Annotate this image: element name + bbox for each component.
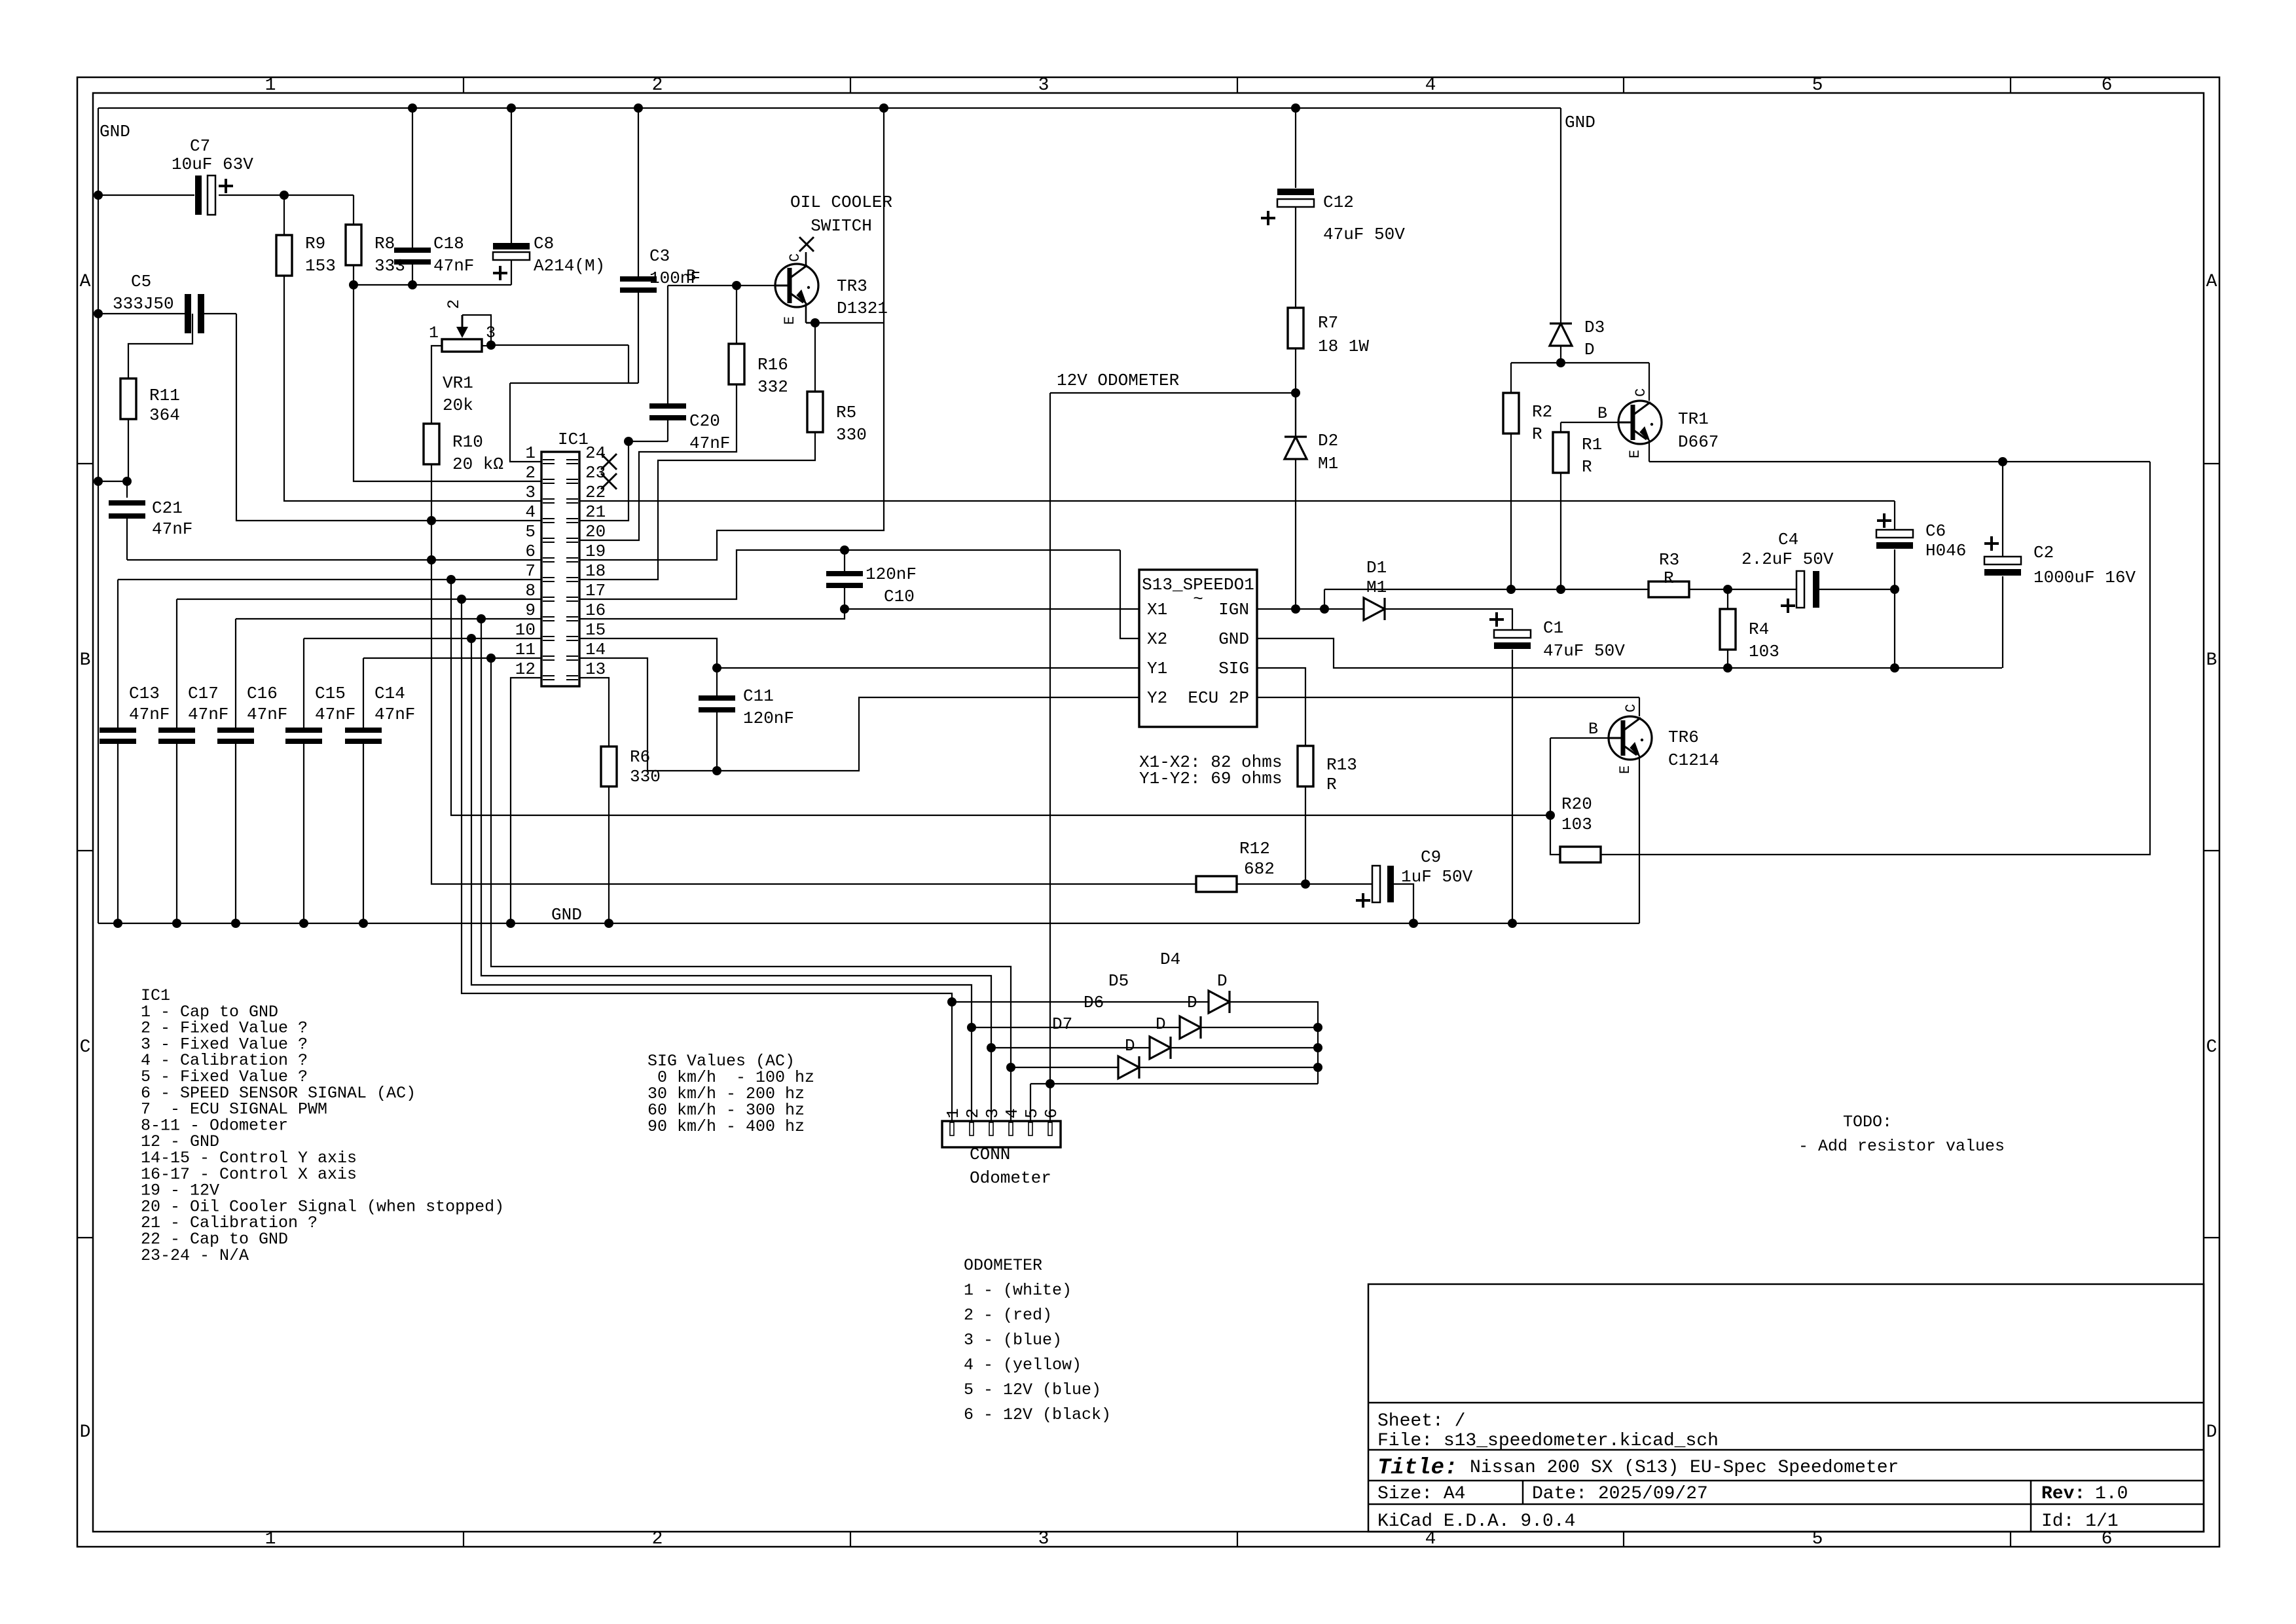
svg-text:R: R — [1582, 457, 1592, 477]
diode D7 — [1052, 1014, 1139, 1079]
svg-text:3: 3 — [486, 323, 496, 342]
resistor R13 — [1298, 746, 1357, 794]
junction C1 gnd — [1508, 919, 1517, 928]
diode D1 — [1364, 558, 1387, 620]
wire TR1 base — [1561, 422, 1618, 423]
junction C7-left — [94, 191, 103, 200]
transistor TR6 — [1588, 704, 1719, 774]
junction 12V rail — [879, 103, 888, 113]
wires CONN pins — [952, 1002, 1050, 1121]
svg-text:3: 3 — [1038, 75, 1049, 96]
wire TR1 E down — [1649, 440, 1650, 462]
svg-text:5: 5 — [1022, 1108, 1042, 1118]
svg-text:47nF: 47nF — [247, 705, 287, 724]
svg-text:OIL COOLER: OIL COOLER — [790, 193, 892, 212]
svg-text:~: ~ — [1193, 589, 1203, 609]
junction conn6 12V — [1046, 1079, 1055, 1088]
label CONN — [970, 1145, 1051, 1188]
svg-text:5 - 12V (blue): 5 - 12V (blue) — [964, 1380, 1101, 1399]
no-connect pin23 — [601, 473, 617, 489]
capacitor C21 — [109, 481, 541, 560]
svg-text:IC1: IC1 — [558, 430, 589, 449]
wire D5 row — [972, 1027, 1180, 1028]
capacitor C11 — [699, 668, 794, 771]
wire D4 row — [952, 1001, 1209, 1003]
svg-text:19: 19 — [585, 542, 606, 561]
svg-text:330: 330 — [836, 425, 867, 445]
svg-text:1000uF 16V: 1000uF 16V — [2033, 568, 2136, 587]
svg-text:KiCad E.D.A. 9.0.4: KiCad E.D.A. 9.0.4 — [1377, 1511, 1575, 1532]
svg-text:90 km/h - 400 hz: 90 km/h - 400 hz — [647, 1117, 805, 1136]
svg-text:R3: R3 — [1659, 550, 1679, 570]
junction pin7 bus — [446, 575, 456, 584]
svg-text:GND: GND — [100, 122, 130, 141]
svg-text:C5: C5 — [131, 272, 151, 291]
wire 900 rail left — [1324, 589, 1649, 590]
svg-text:C16: C16 — [247, 684, 278, 703]
wire S13 GND to rail — [1257, 638, 2002, 668]
wire right loop — [1601, 462, 2150, 855]
svg-text:6 - 12V (black): 6 - 12V (black) — [964, 1405, 1111, 1424]
svg-text:Odometer: Odometer — [970, 1168, 1051, 1188]
svg-text:C20: C20 — [689, 411, 720, 431]
wire ECU row right — [1257, 697, 1639, 698]
svg-text:TODO:: TODO: — [1843, 1113, 1892, 1132]
wire bus pin7 to TR6 base row — [451, 580, 1550, 815]
svg-text:C14: C14 — [374, 684, 405, 703]
wire C21 row — [98, 481, 127, 482]
junction R2 bottom — [1506, 585, 1516, 594]
svg-text:R16: R16 — [757, 355, 788, 375]
svg-text:13: 13 — [585, 659, 606, 679]
wire R1 bottom — [1560, 473, 1561, 589]
resistor R5 — [807, 323, 867, 445]
svg-text:330: 330 — [630, 767, 661, 786]
junction D3 anode — [1556, 358, 1565, 367]
capacitor C12 — [1261, 108, 1405, 308]
wire SIG to R13 — [1257, 668, 1305, 746]
svg-text:R5: R5 — [836, 403, 856, 422]
junction C14 gnd — [359, 919, 368, 928]
diode D3 — [1550, 318, 1605, 363]
wire pin16 to X1 — [579, 609, 845, 619]
svg-text:R: R — [1532, 424, 1542, 444]
wire TR6 E down — [1639, 756, 1640, 923]
connector CONN — [942, 1108, 1061, 1147]
wire diode bottom row — [1030, 1083, 1318, 1084]
bottom GND rail wire — [98, 923, 1639, 924]
svg-text:D667: D667 — [1678, 432, 1719, 452]
svg-text:A: A — [2206, 272, 2217, 292]
svg-text:1.0: 1.0 — [2095, 1484, 2128, 1504]
svg-text:103: 103 — [1749, 642, 1779, 661]
junction R6 gnd — [604, 919, 613, 928]
svg-text:1: 1 — [429, 323, 439, 342]
svg-text:IGN: IGN — [1218, 600, 1249, 619]
wire R5 to pin18 — [579, 432, 815, 580]
wire D3 column — [1560, 108, 1561, 323]
capacitor C6 — [1876, 501, 1966, 668]
junction pin12 gnd — [506, 919, 515, 928]
resistor R3 — [1649, 550, 1689, 597]
junction R1 bottom — [1556, 585, 1565, 594]
resistor R16 — [729, 286, 788, 397]
wire x659 pin4-pin6 — [431, 521, 432, 560]
svg-text:D: D — [1584, 340, 1595, 360]
junction C18 top — [408, 103, 417, 113]
svg-text:D5: D5 — [1108, 971, 1129, 991]
junction R11 bottom — [122, 477, 132, 486]
svg-text:C9: C9 — [1421, 847, 1441, 867]
svg-text:M1: M1 — [1366, 578, 1387, 597]
svg-text:17: 17 — [585, 581, 606, 600]
wire TR6 C — [1639, 697, 1640, 716]
capacitor C9 — [1356, 847, 1473, 923]
svg-text:10: 10 — [515, 620, 536, 640]
svg-text:GND: GND — [551, 905, 582, 925]
wire R12 to C9 — [1237, 883, 1372, 885]
svg-text:4 - (yellow): 4 - (yellow) — [964, 1356, 1082, 1375]
svg-text:SWITCH: SWITCH — [811, 216, 872, 236]
svg-text:C2: C2 — [2033, 543, 2054, 563]
junction R3-R4 node — [1723, 585, 1732, 594]
resistor R11 — [120, 314, 192, 481]
junction IGN 12V — [1291, 604, 1300, 614]
svg-text:R10: R10 — [452, 432, 483, 452]
svg-text:A214(M): A214(M) — [534, 256, 605, 276]
svg-text:9: 9 — [525, 600, 536, 620]
svg-text:R11: R11 — [149, 386, 180, 405]
svg-text:1: 1 — [265, 1529, 276, 1549]
junction C12 top — [1291, 103, 1300, 113]
svg-text:D: D — [1156, 1014, 1166, 1034]
svg-text:Size: A4: Size: A4 — [1377, 1484, 1465, 1504]
svg-text:B: B — [1597, 404, 1607, 423]
junction C16 gnd — [231, 919, 240, 928]
junction rail C21 row — [94, 477, 103, 486]
wire bus pin8 to conn1 — [462, 599, 952, 1002]
wire TR6 base row — [1550, 737, 1608, 739]
svg-text:103: 103 — [1561, 815, 1592, 834]
svg-text:47nF: 47nF — [315, 705, 355, 724]
junction conn1 — [947, 997, 957, 1006]
svg-text:TR1: TR1 — [1678, 409, 1709, 429]
svg-text:E: E — [782, 316, 798, 325]
net label GND top-left — [100, 122, 130, 141]
svg-text:M1: M1 — [1318, 454, 1338, 473]
capacitor C1 — [1489, 612, 1625, 923]
svg-text:1: 1 — [943, 1108, 963, 1118]
wire R9 bottom to pin3 — [284, 276, 541, 501]
junction conn2 — [967, 1023, 976, 1032]
wire base to R20 node — [1550, 738, 1551, 815]
capacitor C10 — [826, 550, 917, 609]
wire bus pin9 to conn3 — [481, 619, 991, 1048]
svg-text:E: E — [1627, 450, 1643, 458]
wire TR3 base row — [668, 285, 775, 286]
svg-text:24: 24 — [585, 443, 606, 463]
diode D5 — [1108, 971, 1201, 1039]
svg-text:6: 6 — [1042, 1108, 1061, 1118]
svg-text:1 - (white): 1 - (white) — [964, 1281, 1072, 1300]
svg-text:3: 3 — [983, 1108, 1002, 1118]
svg-text:B: B — [80, 650, 91, 671]
resistor R12 — [1196, 839, 1275, 892]
resistor R10 — [424, 424, 503, 474]
label coil resistance — [1139, 752, 1282, 788]
wire row435 — [354, 284, 511, 286]
capacitor C18 — [394, 108, 474, 285]
wire D7 row — [1011, 1067, 1118, 1068]
svg-text:E: E — [1617, 766, 1633, 774]
svg-text:D1321: D1321 — [837, 299, 888, 318]
svg-text:C10: C10 — [884, 587, 915, 606]
junction conn4 — [1006, 1063, 1015, 1072]
svg-text:D7: D7 — [1052, 1014, 1072, 1034]
svg-text:Title:: Title: — [1377, 1456, 1457, 1481]
wire TR1 C — [1649, 363, 1650, 401]
svg-text:Nissan 200 SX (S13) EU-Spec Sp: Nissan 200 SX (S13) EU-Spec Speedometer — [1470, 1458, 1899, 1478]
svg-text:332: 332 — [757, 377, 788, 397]
svg-text:2: 2 — [445, 299, 464, 309]
svg-text:3: 3 — [1038, 1529, 1049, 1549]
svg-text:12V ODOMETER: 12V ODOMETER — [1057, 371, 1179, 390]
svg-text:47nF: 47nF — [689, 434, 730, 453]
junction R16 top — [732, 281, 741, 290]
svg-text:File: s13_speedometer.kicad_sc: File: s13_speedometer.kicad_sch — [1377, 1431, 1719, 1451]
svg-text:1: 1 — [265, 75, 276, 96]
svg-text:TR6: TR6 — [1668, 728, 1699, 747]
resistor R7 — [1288, 308, 1369, 356]
svg-text:C21: C21 — [152, 498, 183, 518]
svg-text:7: 7 — [525, 561, 536, 581]
title block — [1368, 1284, 2204, 1532]
wire R10 bottom — [431, 464, 432, 521]
transistor TR3 — [686, 237, 888, 325]
wire TR1 collector row — [1511, 362, 1649, 363]
resistor R20 — [1560, 794, 1601, 862]
svg-text:47nF: 47nF — [129, 705, 170, 724]
wire pin22 row — [579, 500, 1895, 502]
wire D7 right — [1139, 1067, 1318, 1068]
wire pin15 to Y1 — [579, 638, 717, 668]
svg-text:B: B — [686, 267, 696, 286]
capacitor C2 — [1984, 462, 2136, 668]
svg-text:VR1: VR1 — [443, 373, 473, 393]
wire D6 right — [1171, 1047, 1318, 1048]
wire C7 to R8 — [284, 194, 354, 196]
junction x659-pin6 — [427, 555, 436, 564]
junction R13-R12 node — [1301, 879, 1310, 889]
capacitor C4 — [1741, 530, 1895, 613]
wire pin10 row — [304, 638, 541, 639]
wire TR3 E to 12V column — [815, 322, 884, 323]
svg-text:2.2uF 50V: 2.2uF 50V — [1741, 549, 1834, 569]
wire D5 right — [1201, 1027, 1318, 1028]
svg-text:C: C — [1623, 704, 1639, 712]
svg-text:SIG: SIG — [1218, 659, 1249, 678]
wire R2 bottom — [1510, 434, 1512, 589]
svg-text:D: D — [1217, 971, 1228, 991]
diode D4 — [1160, 950, 1230, 1013]
junction pin11 bus — [486, 654, 496, 663]
wire pin12 to gnd — [511, 678, 541, 923]
svg-text:D: D — [1187, 993, 1197, 1012]
junction pin8 bus — [457, 595, 466, 604]
wire R20 left — [1550, 815, 1560, 855]
svg-text:R7: R7 — [1318, 313, 1338, 333]
junction TR6 base node — [1546, 811, 1555, 820]
junction C2 top — [1998, 457, 2007, 466]
svg-text:364: 364 — [149, 405, 180, 425]
svg-text:22: 22 — [585, 483, 606, 502]
junction C13 gnd — [113, 919, 122, 928]
resistor R2 — [1503, 393, 1552, 444]
top rail wire — [98, 107, 1561, 109]
junction C6 gnd — [1890, 663, 1899, 673]
capacitor C3 — [620, 108, 701, 383]
wire R2 top — [1510, 363, 1512, 393]
no-connect pin24 — [601, 454, 617, 470]
svg-text:R4: R4 — [1749, 619, 1769, 639]
svg-text:Y1-Y2: 69 ohms: Y1-Y2: 69 ohms — [1139, 769, 1282, 788]
svg-text:C12: C12 — [1323, 193, 1354, 212]
junction C9 gnd — [1409, 919, 1418, 928]
junction C7-right — [280, 191, 289, 200]
capacitor C14 — [345, 658, 415, 923]
junction VR1 pin3 — [486, 341, 496, 350]
svg-text:H046: H046 — [1925, 541, 1966, 561]
svg-text:8: 8 — [525, 581, 536, 600]
diode D2 — [1285, 348, 1338, 609]
junction C8 top — [507, 103, 516, 113]
wire row585 — [510, 382, 638, 384]
wire R13 bottom — [1305, 786, 1306, 884]
svg-text:20k: 20k — [443, 396, 473, 415]
svg-text:Sheet: /: Sheet: / — [1377, 1411, 1465, 1431]
svg-text:153: 153 — [305, 256, 336, 276]
wire R4 bottom — [1727, 650, 1728, 668]
svg-text:10uF 63V: 10uF 63V — [172, 155, 253, 174]
wire D1 to C1 — [1385, 609, 1512, 630]
potentiometer VR1 — [429, 299, 496, 424]
svg-text:ODOMETER: ODOMETER — [964, 1256, 1042, 1275]
svg-text:4: 4 — [1425, 75, 1436, 96]
svg-text:R2: R2 — [1532, 402, 1552, 422]
svg-text:12: 12 — [515, 659, 536, 679]
wire R16 to pin20 — [579, 384, 737, 540]
junction pin9 bus — [477, 614, 486, 623]
capacitor C13 — [100, 580, 170, 923]
svg-text:682: 682 — [1244, 859, 1275, 879]
wire X1 row — [845, 608, 1139, 610]
transistor TR1 — [1597, 388, 1719, 458]
junction C10 bottom — [840, 604, 849, 614]
text IC1 pin functions — [141, 986, 504, 1265]
wire pin8 row — [177, 599, 541, 600]
capacitor C16 — [217, 619, 287, 923]
text ODOMETER wires — [964, 1256, 1111, 1424]
svg-text:R1: R1 — [1582, 435, 1602, 454]
svg-text:Rev:: Rev: — [2041, 1484, 2085, 1504]
svg-text:20 kΩ: 20 kΩ — [452, 454, 503, 474]
svg-text:6: 6 — [525, 542, 536, 561]
svg-text:C: C — [80, 1037, 91, 1058]
svg-text:C13: C13 — [129, 684, 160, 703]
junction R10-pin4 — [427, 516, 436, 525]
svg-text:R9: R9 — [305, 234, 325, 253]
svg-text:1uF 50V: 1uF 50V — [1401, 867, 1473, 887]
svg-text:CONN: CONN — [970, 1145, 1010, 1164]
junction TR3 emitter — [811, 318, 820, 327]
svg-text:C1: C1 — [1543, 618, 1563, 638]
junction C6 mid — [1890, 585, 1899, 594]
svg-text:GND: GND — [1218, 629, 1249, 649]
svg-text:5: 5 — [1812, 75, 1823, 96]
label 12V ODOMETER — [1057, 371, 1179, 390]
junction C15 gnd — [299, 919, 308, 928]
junction conn3 — [987, 1043, 996, 1052]
svg-text:C4: C4 — [1778, 530, 1798, 549]
svg-text:23: 23 — [585, 463, 606, 483]
svg-text:C17: C17 — [188, 684, 219, 703]
text SIG values — [647, 1052, 814, 1136]
diode D6 — [1084, 993, 1171, 1059]
wire D4 to right bus — [1230, 1002, 1318, 1084]
svg-text:R13: R13 — [1326, 755, 1357, 775]
junction R4 gnd — [1723, 663, 1732, 673]
text TODO — [1798, 1113, 2005, 1156]
capacitor C5 — [98, 272, 236, 333]
wire pin9 row — [236, 618, 541, 619]
junction C11 top — [712, 663, 721, 673]
svg-text:20: 20 — [585, 522, 606, 542]
wire 12V odometer drop — [1049, 393, 1051, 1084]
svg-text:2: 2 — [963, 1108, 983, 1118]
svg-text:R8: R8 — [374, 234, 395, 253]
svg-text:4: 4 — [1002, 1108, 1022, 1118]
net label GND bottom — [551, 905, 582, 925]
resistor R4 — [1720, 589, 1779, 661]
resistor R1 — [1553, 432, 1602, 477]
svg-text:47uF 50V: 47uF 50V — [1323, 225, 1405, 244]
svg-text:D6: D6 — [1084, 993, 1104, 1012]
svg-text:C8: C8 — [534, 234, 554, 253]
junction pin10 bus — [467, 634, 476, 643]
svg-text:23-24 - N/A: 23-24 - N/A — [141, 1246, 249, 1265]
svg-text:A: A — [80, 272, 91, 292]
svg-text:Id: 1/1: Id: 1/1 — [2041, 1511, 2119, 1532]
wire x659 to R12 row — [431, 560, 1196, 884]
svg-text:18 1W: 18 1W — [1318, 337, 1369, 356]
svg-text:47nF: 47nF — [374, 705, 415, 724]
svg-text:333: 333 — [374, 256, 405, 276]
capacitor C7 — [98, 136, 284, 215]
svg-text:B: B — [2206, 650, 2217, 671]
wire riser to row585 — [628, 345, 629, 383]
svg-text:D: D — [1125, 1036, 1135, 1056]
svg-text:- Add resistor values: - Add resistor values — [1798, 1137, 2005, 1156]
svg-text:D: D — [2206, 1422, 2217, 1443]
wire 12V odometer — [1050, 393, 1296, 437]
junction D6 bus — [1313, 1043, 1322, 1052]
wire bus pin10 to conn2 — [471, 638, 972, 1027]
svg-text:ECU 2P: ECU 2P — [1188, 688, 1249, 708]
svg-text:D: D — [80, 1422, 91, 1443]
junction C10 top — [840, 545, 849, 555]
svg-text:GND: GND — [1565, 113, 1595, 132]
svg-text:2: 2 — [652, 1529, 663, 1549]
